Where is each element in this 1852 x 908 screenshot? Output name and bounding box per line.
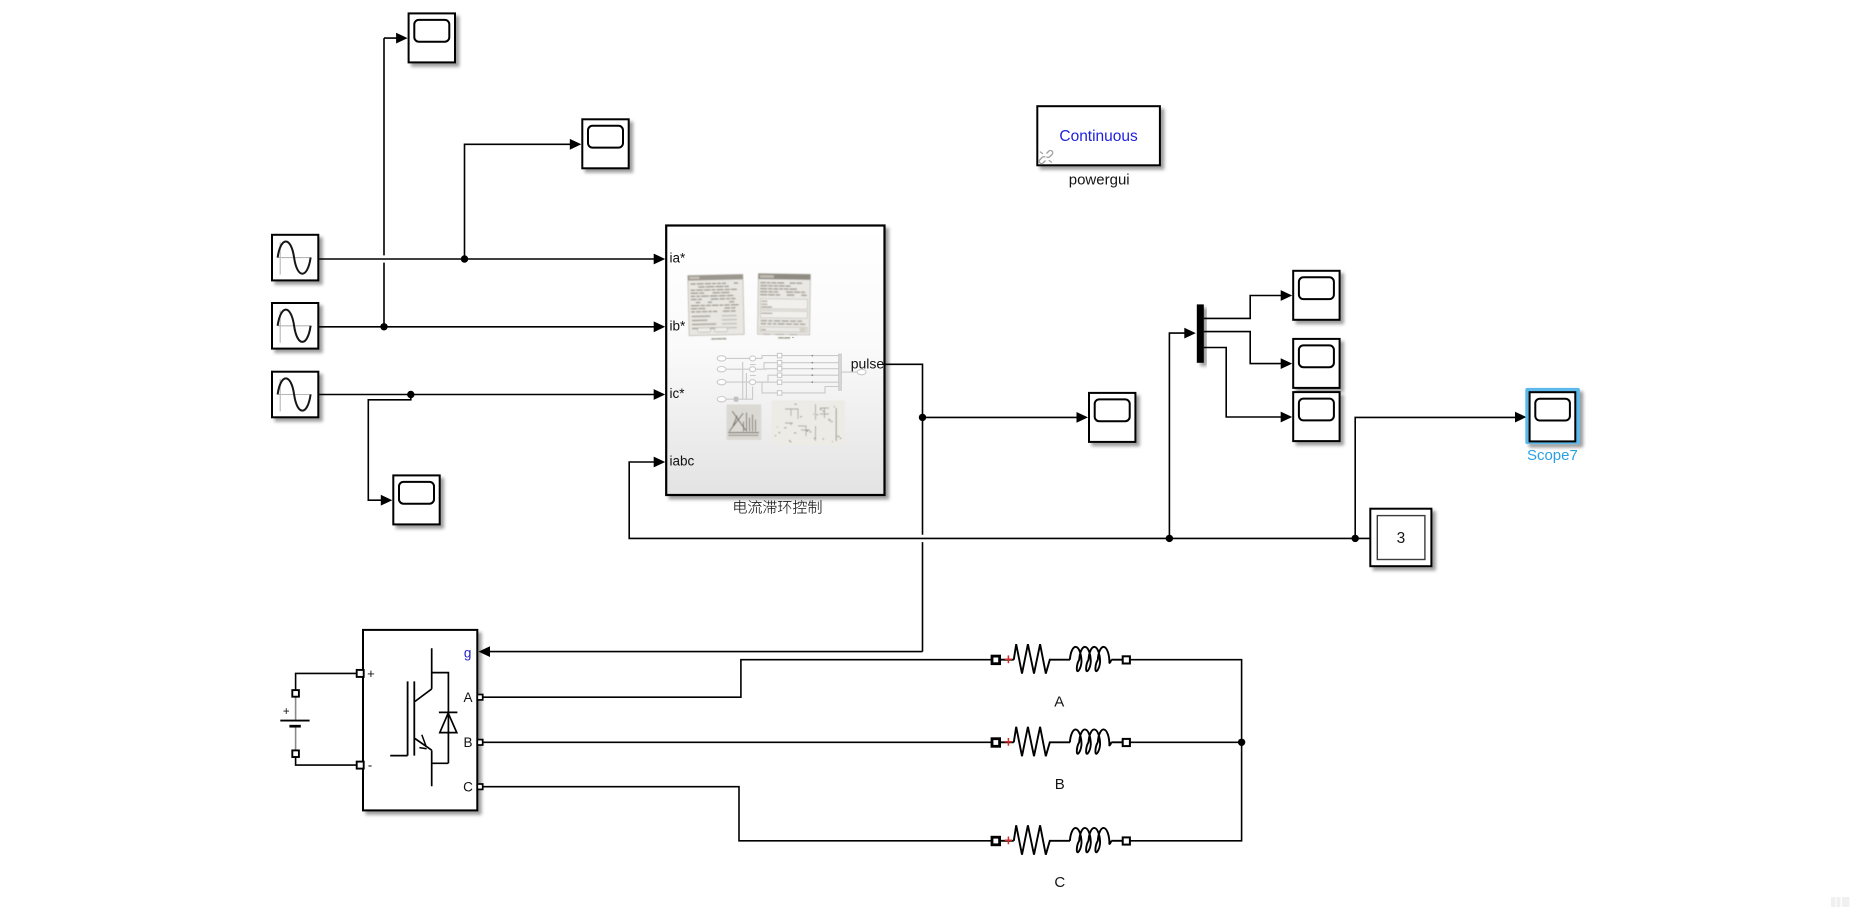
svg-text:3: 3	[1397, 530, 1406, 547]
wire sine1 to ia*	[318, 258, 657, 260]
scope block ScopeA right-top	[1293, 271, 1339, 320]
port square branch B right port	[1123, 739, 1130, 746]
arrowhead into ScopeB	[1281, 358, 1293, 369]
svg-text:Scope7: Scope7	[1527, 447, 1578, 464]
arrowhead into Scope7	[1515, 412, 1527, 423]
svg-text:pulse: pulse	[851, 355, 885, 371]
junction three-phase star point	[1238, 739, 1245, 746]
subsystem current hysteresis control block	[666, 226, 884, 496]
Scope7 selected highlight	[1525, 388, 1580, 444]
wire riser to Scope7	[1355, 417, 1517, 538]
svg-text:C: C	[1054, 874, 1065, 891]
wire branch to Scope2	[465, 144, 573, 259]
branch A measurement + mark	[1005, 655, 1012, 663]
arrowhead into ic* port	[654, 389, 666, 400]
junction on ic* wire	[407, 391, 414, 398]
arrowhead into Scope1	[396, 33, 408, 44]
arrowhead into Scope4	[381, 495, 393, 506]
wire branch to Scope4	[368, 395, 411, 501]
svg-text:B: B	[463, 735, 472, 750]
svg-text:B: B	[1055, 776, 1065, 793]
svg-text:+: +	[367, 666, 375, 681]
subsystem thumbnail dialog 2	[758, 274, 811, 339]
scope block Scope2	[582, 119, 628, 168]
Scope7 block	[1530, 392, 1576, 441]
junction net to Scope7 junction	[1352, 535, 1359, 542]
junction net to demux junction	[1166, 535, 1173, 542]
scope block Scope1 top	[409, 13, 455, 62]
corner watermark	[1831, 897, 1850, 907]
wire bridge A to branch A	[482, 660, 992, 698]
junction on pulse wire	[919, 414, 926, 421]
svg-text:ic*: ic*	[670, 386, 686, 401]
port square branch C right port	[1123, 837, 1130, 844]
svg-text:ia*: ia*	[670, 251, 687, 266]
wire sine3 to ic*	[318, 394, 657, 396]
universal bridge block	[363, 630, 477, 811]
scope block Scope5 mid	[1089, 393, 1135, 442]
svg-text:powergui: powergui	[1069, 172, 1130, 189]
sine wave source Sine Wave ic ref	[272, 372, 318, 418]
port square battery - port	[292, 750, 299, 757]
svg-text:Continuous: Continuous	[1059, 128, 1138, 145]
sine wave source Sine Wave ib ref	[272, 303, 318, 349]
subsystem thumbnail dialog 1	[688, 274, 744, 339]
svg-text:C: C	[463, 780, 473, 795]
wire demux out3	[1204, 348, 1283, 418]
demux bar	[1197, 304, 1204, 362]
wire riser to demux	[1169, 333, 1186, 538]
wire demux out1	[1204, 296, 1283, 319]
series RL branch C	[999, 825, 1123, 854]
wire branch to Scope5	[923, 416, 1079, 418]
junction on ib* wire	[380, 323, 387, 330]
svg-text:+: +	[283, 706, 290, 718]
svg-text:g: g	[464, 646, 472, 661]
arrowhead into ScopeA	[1281, 290, 1293, 301]
subsystem label 电流滞环控制	[735, 500, 822, 514]
port square bridge - port	[357, 762, 364, 769]
thumbnail captions	[705, 338, 794, 340]
port square branch C left port	[992, 837, 1000, 845]
scope block ScopeB right-mid	[1293, 339, 1339, 388]
arrowhead into demux	[1184, 328, 1196, 339]
powergui broken-link icon	[1038, 150, 1053, 165]
subsystem thumbnail schematic	[772, 401, 846, 446]
branch C measurement + mark	[1005, 837, 1012, 845]
port square bridge + port	[357, 670, 364, 677]
junction on ia* wire	[461, 255, 468, 262]
arrowhead into Scope5	[1077, 412, 1089, 423]
arrowhead into ia* port	[654, 254, 666, 265]
subsystem thumbnail plot	[727, 405, 762, 441]
arrowhead into ib* port	[654, 321, 666, 332]
wire demux out2	[1204, 332, 1283, 364]
IGBT icon inside bridge	[390, 648, 457, 786]
IGBT emitter arrowhead	[419, 735, 426, 749]
scope block Scope4 bottom-left	[393, 475, 439, 524]
arrowhead into g port	[479, 646, 491, 657]
wire pulse to g	[489, 364, 923, 651]
wire battery plus to bridge +	[296, 673, 357, 689]
port square bridge C port	[477, 784, 482, 789]
arrowhead into iabc port	[654, 457, 666, 468]
wire branch B output	[1130, 741, 1242, 743]
wire bridge C to branch C	[482, 787, 992, 841]
subsystem inner relay diagram	[717, 353, 866, 402]
svg-text:iabc: iabc	[670, 454, 695, 469]
svg-text:-: -	[368, 758, 372, 773]
wire branch to Scope1	[384, 38, 398, 327]
wire long net to width block	[629, 462, 1370, 538]
series RL branch A	[999, 644, 1123, 673]
series RL branch B	[999, 727, 1123, 756]
signal width block 3	[1370, 509, 1431, 567]
arrowhead into ScopeC	[1281, 412, 1293, 423]
wire bridge B to branch B	[482, 741, 992, 743]
scope block ScopeC right-bottom	[1293, 392, 1339, 441]
arrowhead into Scope2	[570, 139, 582, 150]
port square bridge A port	[477, 695, 482, 700]
branch B measurement + mark	[1005, 738, 1012, 746]
port square bridge B port	[477, 740, 482, 745]
sine wave source Sine Wave ia ref	[272, 235, 318, 281]
powergui block	[1037, 106, 1160, 165]
svg-text:A: A	[1054, 694, 1064, 711]
DC voltage source battery	[280, 697, 309, 751]
svg-text:ib*: ib*	[670, 318, 687, 333]
wire branch A/C outputs bus	[1130, 660, 1242, 841]
port square branch B left port	[992, 739, 1000, 747]
wire sine2 to ib*	[318, 326, 657, 328]
wire battery minus to bridge -	[296, 757, 357, 765]
port square branch A left port	[992, 656, 1000, 664]
svg-text:A: A	[463, 690, 472, 705]
port square battery + port	[292, 690, 299, 697]
port square branch A right port	[1123, 656, 1130, 663]
